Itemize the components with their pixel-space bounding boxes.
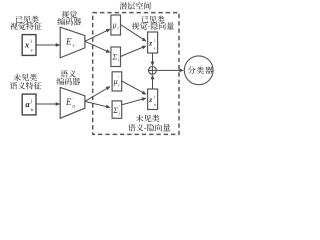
svg-text:μ: μ: [112, 21, 117, 30]
svg-text:x: x: [24, 40, 30, 50]
label unseen latent line1 未见类: [136, 115, 160, 122]
label classifier 分类器: [188, 66, 213, 74]
label seen latent line2 视觉-隐向量: [132, 22, 174, 30]
label visual encoder line2 编码器: [58, 18, 82, 26]
svg-text:v: v: [154, 45, 156, 50]
wire E_a -> Sigma': [85, 101, 107, 106]
label semantic encoder line2 编码器: [57, 78, 81, 86]
label unseen-class line2 语义特征: [10, 82, 42, 89]
svg-text:a: a: [25, 99, 30, 109]
wire E_v -> Sigma: [85, 41, 108, 51]
wire E_a -> mu': [85, 88, 108, 101]
wire z_u -> adder: [152, 78, 154, 89]
label visual encoder line1 视觉: [62, 11, 78, 19]
label seen latent line1 已见类: [142, 16, 165, 23]
box z_v^i seen visual latent vector: [148, 32, 158, 53]
box Sigma_i: [111, 47, 121, 67]
label unseen latent line2 语义-隐向量: [128, 124, 170, 131]
box x_s^i seen visual feature: [22, 35, 36, 56]
box z_u^j unseen semantic latent vector: [148, 89, 158, 110]
svg-text:z: z: [148, 38, 152, 47]
box mu'_j: [112, 72, 122, 91]
svg-text:′: ′: [73, 98, 74, 103]
svg-text:z: z: [148, 95, 152, 104]
encoder E_a' trapezoid: [60, 87, 85, 118]
box a_u^j unseen semantic feature: [22, 94, 36, 115]
svg-text:Σ: Σ: [111, 53, 117, 62]
box Sigma'_j: [112, 101, 122, 118]
dashed latent-space box 潜层空间: [93, 13, 179, 135]
box mu_i: [111, 15, 121, 35]
label semantic encoder line1 语义: [61, 70, 76, 77]
svg-text:E: E: [65, 97, 72, 107]
svg-text:μ: μ: [113, 77, 118, 86]
svg-text:s: s: [31, 49, 33, 54]
encoder E_v trapezoid: [60, 27, 85, 58]
wire mu' -> z_u: [122, 81, 144, 93]
wire E_v -> mu: [85, 30, 108, 41]
wire Sigma' -> z_u: [122, 99, 144, 105]
wire a -> E_a: [36, 103, 57, 105]
svg-text:E: E: [65, 37, 72, 47]
wire adder -> classifier: [156, 69, 180, 71]
classifier circle 分类器: [184, 56, 213, 85]
label latent space 潜层空间: [120, 2, 151, 10]
adder circle-plus node: [149, 67, 157, 75]
label unseen-class line1 未见类: [13, 74, 37, 81]
wire x -> E_v: [36, 44, 57, 46]
label seen-class line2 视觉特征: [10, 22, 42, 30]
wire mu -> z_v: [121, 25, 144, 40]
svg-text:Σ: Σ: [112, 106, 118, 115]
wire Sigma -> z_v: [121, 47, 144, 57]
wire z_v -> adder: [152, 53, 154, 63]
label seen-class line1 已见类: [16, 16, 39, 23]
